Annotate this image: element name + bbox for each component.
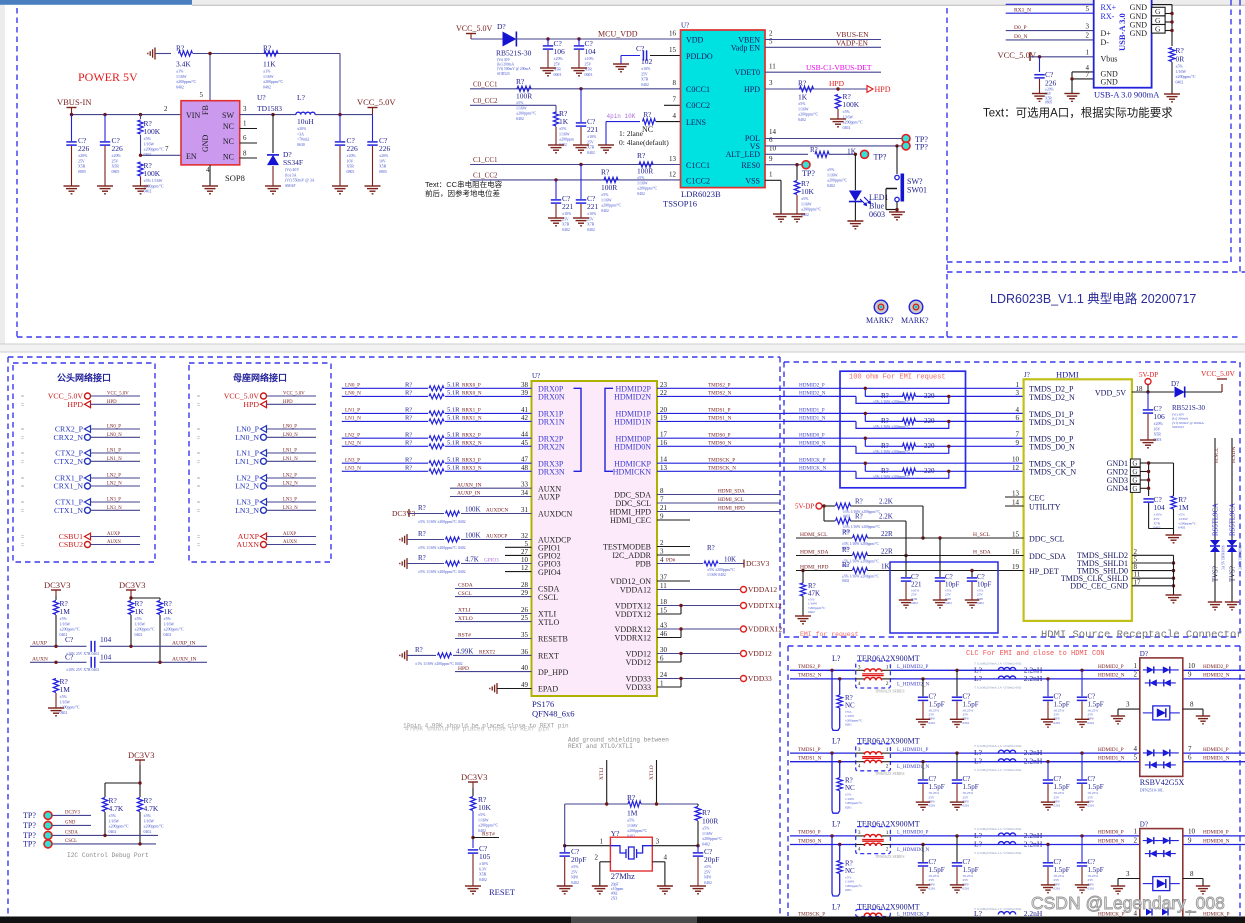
svg-text:1.5pF: 1.5pF [1054,700,1070,708]
svg-text:27: 27 [521,548,529,556]
wire crystal pin3 [652,845,698,847]
svg-text:LN3_N: LN3_N [283,506,298,511]
net PD# wire with resistor R? 10K to DC3V3 [657,563,703,565]
wire left branch to C20pF [564,804,566,846]
svg-text:7: 7 [165,145,169,153]
resistor R? 0R [1169,48,1175,62]
crystal Y? 27Mhz [610,837,652,871]
box 公头网络接口 [13,363,155,562]
svg-text:0805: 0805 [347,170,355,174]
svg-text:=: = [21,459,24,465]
svg-text:AUXP: AUXP [32,641,47,647]
svg-text:0805: 0805 [379,170,387,174]
ground [933,599,947,601]
svg-text:R?: R? [405,431,412,438]
svg-text:HPD: HPD [107,400,117,405]
svg-text:U?: U? [257,93,266,102]
svg-text:Y?: Y? [611,829,620,838]
svg-text:AUXDCN: AUXDCN [486,508,508,514]
svg-text:LN0_N: LN0_N [235,433,259,442]
svg-text:VDD: VDD [686,36,704,45]
svg-text:<70mΩ: <70mΩ [297,138,309,142]
svg-text:25V: 25V [641,72,648,76]
svg-text:5.1R: 5.1R [447,390,460,397]
svg-text:±5%: ±5% [135,617,143,621]
svg-text:D+: D+ [1101,29,1112,38]
svg-text:X7R: X7R [587,146,595,150]
svg-text:±20%: ±20% [1045,88,1054,92]
svg-text:L?: L? [974,757,983,766]
svg-text:TMDS2_P: TMDS2_P [798,664,821,670]
svg-text:Text：CC串电阻在电容: Text：CC串电阻在电容 [425,179,503,189]
svg-text:0201: 0201 [845,723,852,727]
svg-text:14: 14 [1012,499,1020,507]
wire crystal pin1 [565,845,611,847]
svg-text:X5R: X5R [479,873,487,877]
svg-text:HDMI_CEC: HDMI_CEC [610,516,651,525]
svg-text:29: 29 [521,589,529,597]
svg-text:(Vr) 40V: (Vr) 40V [285,168,299,172]
svg-text:0402: 0402 [562,228,570,232]
svg-text:11K: 11K [263,60,276,69]
resistor R? 1M (crystal) [628,801,641,807]
resistor R? 1K (HPD) [800,86,814,91]
svg-text:21: 21 [660,504,668,512]
svg-text:L_HDMID1_P: L_HDMID1_P [897,747,929,753]
svg-text:(Vf) 550mV @ 3A: (Vf) 550mV @ 3A [285,179,315,183]
svg-text:=: = [21,451,24,457]
svg-text:5: 5 [1086,5,1090,13]
svg-text:R?: R? [418,504,426,512]
wire GND collector [1152,4,1172,6]
svg-text:MARK?: MARK? [901,316,929,325]
svg-text:RRX1_N: RRX1_N [462,416,482,422]
svg-text:=: = [197,459,200,465]
svg-text:±200ppm/°C: ±200ppm/°C [827,179,848,183]
svg-text:1K: 1K [881,563,890,571]
capacitor C? 104 (HDMI gnd) [1143,498,1153,500]
svg-text:TP060A2X SERIES: TP060A2X SERIES [875,689,904,693]
capacitor C? 1.5pF (row 1 c) [1046,677,1049,680]
svg-text:±5% 1/16W ±200ppm/°C: ±5% 1/16W ±200ppm/°C [873,450,910,454]
svg-text:±200ppm/°C: ±200ppm/°C [144,148,165,152]
svg-text:6: 6 [769,136,773,144]
sheet border box E bottom-right HDMI connector section [783,362,785,637]
svg-text:1/16W: 1/16W [516,106,527,110]
svg-text:HDMID0_N: HDMID0_N [1203,838,1230,844]
svg-text:3: 3 [1016,389,1020,397]
svg-text:HDMID0N: HDMID0N [614,443,651,452]
svg-text:=: = [21,535,24,541]
sheet border box F bottom-right CLC section [787,646,789,916]
svg-text:100R: 100R [601,183,617,192]
svg-text:±5% 1/16W ±200ppm/°C 0402: ±5% 1/16W ±200ppm/°C 0402 [418,570,466,574]
svg-text:L?: L? [297,93,306,102]
svg-text:4.7K: 4.7K [144,804,159,813]
svg-text:VDD33: VDD33 [748,674,772,683]
svg-text:X5R: X5R [1154,433,1162,437]
svg-text:0: 4lane(default): 0: 4lane(default) [619,138,669,147]
svg-text:1/16W: 1/16W [1176,70,1187,74]
svg-text:R?: R? [176,44,185,53]
svg-text:=: = [197,476,200,482]
svg-text:0402: 0402 [135,633,143,637]
svg-text:R?: R? [418,530,426,538]
svg-text:1/16W: 1/16W [135,622,146,626]
svg-text:1.5pF: 1.5pF [929,700,945,708]
svg-text:226: 226 [379,144,391,153]
svg-text:L?: L? [832,903,841,912]
svg-text:(Io) 3A: (Io) 3A [285,173,297,177]
svg-text:LN3_N: LN3_N [235,506,259,515]
svg-text:40: 40 [521,664,529,672]
svg-text:5.1R: 5.1R [447,465,460,472]
svg-text:=: = [197,500,200,506]
svg-text:C?: C? [963,692,971,700]
svg-text:1: 1 [243,120,247,128]
svg-text:VDDA12: VDDA12 [620,586,651,595]
resistor R? 1K (AUXN) [157,601,162,615]
svg-text:DDC_CEC_GND: DDC_CEC_GND [1070,582,1128,591]
svg-text:1M: 1M [60,607,71,616]
svg-text:0201: 0201 [1054,804,1061,808]
capacitor C? 1.5pF (row 2 b) [955,751,958,754]
ground [1149,528,1174,530]
svg-text:REXT and XTLO/XTLI: REXT and XTLO/XTLI [568,743,633,750]
net L_HDMID2_N wire [891,678,1140,680]
svg-text:TMDS_D2_N: TMDS_D2_N [1029,393,1075,402]
resistor R? 2.2K (SDA pullup) [824,520,835,522]
svg-text:20pF: 20pF [571,855,586,864]
capacitor C? 105 [468,849,478,851]
svg-text:X7R: X7R [562,223,570,227]
svg-text:0402: 0402 [479,878,487,882]
svg-text:DC3V3: DC3V3 [746,559,770,568]
svg-text:106: 106 [1154,412,1166,421]
svg-text:HDMID1_P: HDMID1_P [799,408,825,414]
svg-text:17: 17 [1134,578,1142,586]
svg-text:R?: R? [516,77,525,86]
svg-text:±20%: ±20% [379,154,389,158]
svg-text:VDDTX12: VDDTX12 [748,601,782,610]
svg-text:0402: 0402 [1154,526,1161,530]
svg-text:4: 4 [1134,745,1138,753]
regulator U? TD1583 SOP8 [181,101,240,165]
svg-text:PDB: PDB [635,560,651,569]
svg-text:25V: 25V [112,159,119,163]
capacitor C? 1.5pF (row 3 c) [1046,843,1049,846]
svg-text:TMDS2_N: TMDS2_N [798,673,822,679]
svg-text:100K: 100K [843,100,860,109]
svg-text:10K: 10K [801,187,815,196]
svg-text:QFN48_6x6: QFN48_6x6 [532,709,575,719]
svg-text:HDMID1_P: HDMID1_P [1203,747,1229,753]
svg-text:C1CC2: C1CC2 [686,177,710,186]
svg-text:±10%: ±10% [585,57,595,61]
svg-text:LN0_P: LN0_P [283,425,297,430]
svg-text:X7R: X7R [1154,521,1161,525]
svg-text:LN1_N: LN1_N [345,416,361,422]
svg-text:43: 43 [660,622,668,630]
net USB-C1-VBUS-DET wire [765,71,881,73]
svg-text:±1%: ±1% [263,70,271,74]
svg-text:L_HDMID0_N: L_HDMID0_N [897,847,930,853]
svg-text:36: 36 [521,648,529,656]
wire TMDS1_N [657,420,784,422]
svg-text:0402: 0402 [109,830,117,834]
wire TMDSCK_N [657,470,784,472]
ground [789,213,805,215]
svg-text:=: = [197,402,200,408]
svg-text:G: G [1155,24,1161,33]
svg-text:5.1R: 5.1R [447,440,460,447]
svg-text:1.5pF: 1.5pF [1088,866,1104,874]
svg-text:R?: R? [842,561,850,569]
svg-text:VCC_5.0V: VCC_5.0V [1201,369,1236,378]
svg-text:100K: 100K [144,169,161,178]
svg-text:=: = [197,427,200,433]
ground [592,885,608,887]
svg-text:VDDRX12: VDDRX12 [748,625,782,634]
svg-text:R?: R? [881,442,889,450]
svg-text:1/16W: 1/16W [109,819,120,823]
svg-text:HDMI_SCL: HDMI_SCL [718,497,744,503]
svg-text:0630: 0630 [297,143,305,147]
svg-text:0402: 0402 [176,85,184,89]
svg-text:LN2_N: LN2_N [345,441,361,447]
svg-text:11: 11 [769,63,776,71]
svg-text:HDMICKN: HDMICKN [613,468,651,477]
svg-text:2.2nH: 2.2nH [1024,840,1043,849]
svg-text:±5%: ±5% [827,168,835,172]
svg-text:TSSOP16: TSSOP16 [663,199,697,209]
ground [573,144,589,146]
ground [1225,601,1239,603]
svg-text:3: 3 [858,830,861,836]
svg-text:104: 104 [585,47,597,56]
svg-text:R?: R? [855,498,863,506]
RSBV pin 8 stub to ground [1183,708,1203,710]
svg-text:±10%: ±10% [587,212,597,216]
svg-text:HDMI_SDA: HDMI_SDA [800,550,828,556]
svg-text:TMDS1_P: TMDS1_P [798,747,821,753]
svg-text:TMDS_D0_N: TMDS_D0_N [1029,443,1075,452]
svg-text:3: 3 [858,747,861,753]
svg-text:VDDRX12: VDDRX12 [615,634,651,643]
svg-text:45: 45 [521,439,529,447]
ground [773,213,789,215]
ground [657,885,673,887]
svg-text:25V: 25V [587,140,594,144]
box 100 ohm For EMI request [840,371,966,488]
svg-text:NP0: NP0 [704,876,711,880]
svg-text:HDMID2_N: HDMID2_N [1098,673,1125,679]
svg-text:AUXN: AUXN [107,540,121,545]
svg-text:2: 2 [1134,836,1138,844]
output HDMID2_N wire pin 9 [1183,678,1245,680]
capacitor C? 10pF (HPD filter) [971,571,973,578]
resistor R? NC (row 1) [830,669,833,672]
G box 1 (HDMI) [1130,459,1140,467]
svg-text:R?: R? [881,392,889,400]
resistor R? 1M (AUXP bias) [55,596,57,600]
svg-text:1.5pF: 1.5pF [1088,783,1104,791]
svg-text:23: 23 [660,381,668,389]
svg-text:16: 16 [669,30,677,38]
svg-text:RB521S-30: RB521S-30 [1172,404,1206,412]
svg-text:4: 4 [206,166,210,174]
svg-text:TMDS2_P: TMDS2_P [708,383,731,389]
capacitor C? 1.5pF (row 2 d) [1080,751,1083,754]
svg-text:±5%: ±5% [60,617,68,621]
svg-text:5.1R: 5.1R [447,431,460,438]
ground [571,67,587,69]
net RES0 wire [765,164,802,166]
svg-text:H.SCL: H.SCL [1214,447,1220,463]
svg-text:100K: 100K [465,506,481,514]
svg-text:6: 6 [243,134,247,142]
svg-text:5: 5 [769,38,773,46]
svg-text:2: 2 [886,764,889,770]
svg-text:0603: 0603 [554,73,562,77]
svg-text:R?: R? [405,407,412,414]
pin7 stub [664,104,681,106]
svg-text:48: 48 [521,464,529,472]
net HDMI_HPD wire [657,511,780,513]
svg-text:LN1_P: LN1_P [345,408,360,414]
svg-text:X5R: X5R [112,165,120,169]
net POL wire [765,138,902,140]
svg-text:0402: 0402 [571,881,579,885]
svg-text:0201: 0201 [1088,721,1095,725]
svg-text:VIN: VIN [186,111,200,120]
svg-text:RRX1_P: RRX1_P [462,408,481,414]
svg-text:100K: 100K [144,127,161,136]
svg-text:SW01: SW01 [907,186,927,195]
svg-text:0201: 0201 [963,804,970,808]
svg-text:22R: 22R [881,548,893,556]
browser top bar gray segment [192,0,1245,5]
svg-text:LN0_N: LN0_N [283,433,298,438]
resistor R? 2.2K (SCL pullup) [836,503,851,509]
svg-text:C0CC1: C0CC1 [686,85,710,94]
svg-text:1/16W: 1/16W [164,622,175,626]
svg-text:±200ppm/°C: ±200ppm/°C [164,628,185,632]
net TMDS2_N wire [790,678,855,680]
wire RX- to USB-A with label RX1_N [1006,12,1094,14]
svg-text:3A 5V DFN1006: 3A 5V DFN1006 [1239,545,1243,570]
capacitor C? 226 (output 1) [339,115,341,141]
svg-text:GPIO4: GPIO4 [538,568,561,577]
resistor R? 100K (EN lower) [138,162,143,176]
svg-text:221: 221 [911,581,922,589]
svg-text:42: 42 [521,414,529,422]
svg-text:1/16W: 1/16W [1178,517,1188,521]
svg-text:AUXN: AUXN [32,657,48,663]
svg-text:HDMICK_N: HDMICK_N [799,466,827,472]
svg-text:25: 25 [521,614,529,622]
svg-text:GND: GND [1101,78,1119,87]
svg-text:VSS: VSS [745,177,760,186]
svg-text:TP060A2X SERIES: TP060A2X SERIES [875,855,904,859]
svg-text:221: 221 [562,202,574,211]
pin GPIO2 stub [505,554,532,556]
svg-text:2.2nH: 2.2nH [1024,757,1043,766]
ground [847,220,863,222]
svg-text:X7R: X7R [587,223,595,227]
svg-text:RRX3_P: RRX3_P [462,457,481,463]
svg-text:VDD12: VDD12 [748,649,772,658]
svg-text:1/16W: 1/16W [144,819,155,823]
svg-text:TMDS1_N: TMDS1_N [708,416,732,422]
svg-text:MCU_VDD: MCU_VDD [598,30,638,39]
wire TMDS0_P [657,437,784,439]
svg-text:0201: 0201 [845,805,852,809]
svg-text:GND: GND [201,134,210,152]
svg-text:(Vf) 500mV @ 200mA: (Vf) 500mV @ 200mA [497,67,531,71]
svg-text:C?: C? [65,635,74,644]
G box 2 (HDMI) [1130,468,1140,476]
svg-text:1/16W: 1/16W [60,622,71,626]
ground [899,599,913,601]
svg-text:32: 32 [521,532,529,540]
svg-text:X5R: X5R [1045,96,1052,100]
capacitor C? 20pF (right) [697,846,699,852]
svg-text:0402: 0402 [842,579,849,583]
svg-text:CSCL: CSCL [458,591,472,597]
svg-text:1/16W: 1/16W [144,142,155,146]
svg-text:LN1_N: LN1_N [235,457,259,466]
svg-text:T 0.2nH@50mA.1A <250mΩ 60Ω: T 0.2nH@50mA.1A <250mΩ 60Ω [974,744,1022,748]
svg-text:NC: NC [223,137,234,146]
net L_HDMID2_P wire [891,669,1140,671]
svg-text:=: = [197,435,200,441]
svg-text:5.1R: 5.1R [447,382,460,389]
svg-text:VDD33: VDD33 [626,683,651,692]
svg-text:±5%: ±5% [704,865,712,869]
svg-text:4: 4 [1016,406,1020,414]
svg-text:LN3_N: LN3_N [345,466,361,472]
svg-text:LN2_P: LN2_P [283,474,297,479]
svg-text:RST#: RST# [482,832,495,838]
svg-text:8: 8 [1190,701,1194,709]
svg-text:0402: 0402 [798,118,806,122]
svg-text:VDD12: VDD12 [626,658,651,667]
internal bracket HDMID [605,388,613,471]
ground [1032,93,1047,95]
svg-text:DC3V3: DC3V3 [128,750,154,760]
svg-text:PDLDO: PDLDO [686,52,713,61]
svg-text:2: 2 [886,847,889,853]
capacitor C? 221 (C0CC1) [580,89,582,122]
resistor R? 100R (C0CC1) [517,86,531,91]
ground [1064,93,1079,95]
svg-text:±200ppm/°C: ±200ppm/°C [516,112,537,116]
bottom scrollbar thumb [571,917,697,923]
svg-text:LN1_N: LN1_N [283,457,298,462]
svg-text:LN2_P: LN2_P [107,474,121,479]
svg-text:±5% 1/16W ±200ppm/°C: ±5% 1/16W ±200ppm/°C [873,475,910,479]
pin VDD12_ON stub [657,580,690,582]
svg-text:R?: R? [842,529,850,537]
svg-text:C?: C? [1088,858,1096,866]
svg-text:VCC_5.0V: VCC_5.0V [998,50,1037,60]
ground [557,885,573,887]
svg-text:3: 3 [858,664,861,670]
svg-text:±200ppm/°C: ±200ppm/°C [109,825,130,829]
svg-text:CLC For EMI and close to HDMI: CLC For EMI and close to HDMI CON [966,650,1105,658]
resistor R? 220 (HDMID0_P) [864,438,866,446]
